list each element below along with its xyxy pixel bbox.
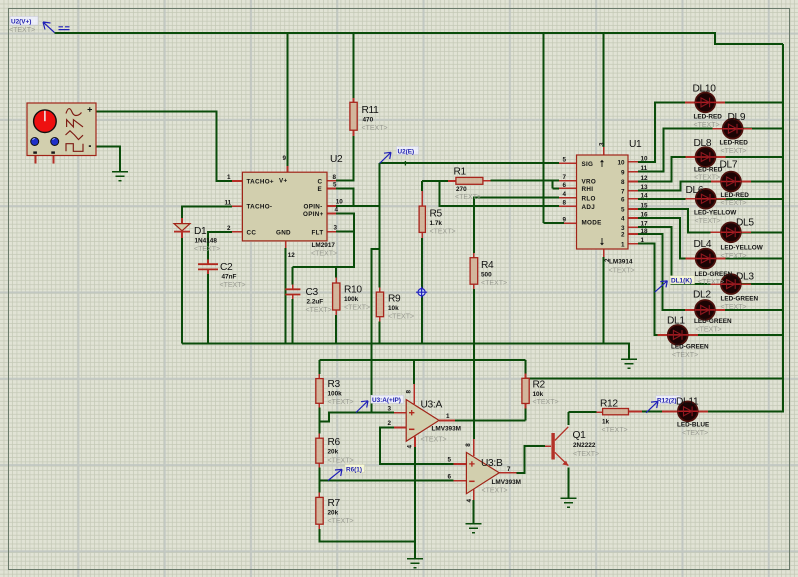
svg-text:7: 7 [621, 188, 625, 195]
wire U3A pin8 up to rail2 [413, 360, 415, 384]
pin stub U3A minus [394, 426, 406, 428]
lead R9 [379, 288, 381, 322]
svg-text:R12(2): R12(2) [657, 397, 677, 404]
wire branch to opamp plus input [372, 249, 380, 413]
svg-text:R7: R7 [328, 498, 341, 509]
probe label R6(1) [328, 465, 365, 481]
svg-text:LED-RED: LED-RED [720, 140, 749, 147]
wire OPIN- row [336, 205, 380, 207]
wire R10 top and bottom [335, 267, 337, 344]
chip U1 body [577, 155, 629, 249]
svg-text:<TEXT>: <TEXT> [430, 229, 456, 236]
svg-text:<TEXT>: <TEXT> [672, 352, 698, 359]
svg-text:10: 10 [641, 155, 649, 162]
resistor R2 [522, 378, 529, 403]
svg-text:TACHO-: TACHO- [247, 204, 273, 211]
wire R3 top [318, 360, 320, 374]
svg-text:DL1: DL1 [667, 316, 685, 327]
svg-text:<TEXT>: <TEXT> [682, 430, 708, 437]
wire U3A output row [455, 419, 526, 421]
lead DL7 [711, 181, 751, 183]
LED DL3 [721, 274, 742, 294]
svg-text:4: 4 [621, 216, 625, 223]
svg-text:5: 5 [621, 207, 625, 214]
svg-text:<TEXT>: <TEXT> [328, 399, 354, 406]
svg-text:R5: R5 [430, 209, 443, 220]
wire U1 pin17 to DL3 [638, 227, 783, 284]
capacitor C3 [285, 289, 300, 294]
svg-text:1k: 1k [602, 419, 610, 426]
svg-text:10: 10 [617, 160, 625, 167]
wire LED anode rail [782, 44, 784, 412]
lead DL8 [685, 156, 725, 158]
pin stub U1 RLO [559, 197, 577, 199]
lead DL5 [711, 231, 751, 233]
probe label U3:A(+IP) [356, 395, 404, 412]
svg-text:9: 9 [562, 217, 566, 224]
wire U1 V+ drop [603, 33, 605, 147]
svg-text:4: 4 [407, 445, 414, 449]
pin stub U1 RHI [559, 187, 577, 189]
node marker crosshair [416, 287, 427, 298]
pin stub U3A power8 [413, 384, 415, 404]
wire U1 pin12 to DL8 [638, 157, 783, 182]
svg-text:LM3914: LM3914 [609, 259, 633, 266]
svg-text:<TEXT>: <TEXT> [220, 282, 246, 289]
svg-text:2.2uF: 2.2uF [307, 299, 324, 306]
lead C2 [207, 260, 209, 275]
svg-text:U3:A(+IP): U3:A(+IP) [372, 397, 401, 404]
svg-text:<TEXT>: <TEXT> [573, 451, 599, 458]
svg-text:7: 7 [562, 174, 566, 181]
wire CC row [208, 232, 232, 260]
pin stub U3B power4 [473, 490, 475, 500]
svg-text:C: C [318, 178, 323, 185]
svg-text:<TEXT>: <TEXT> [306, 307, 332, 314]
generator component [27, 103, 96, 156]
svg-text:1: 1 [621, 241, 625, 248]
pin stub U3B out [499, 472, 516, 474]
LED DL4 [695, 249, 716, 269]
svg-text:4: 4 [562, 191, 566, 198]
lead C3 [292, 285, 294, 300]
wire R11 top drop [353, 33, 355, 98]
wire R6 bottom row to U3B minus [319, 468, 453, 481]
svg-text:U3:B: U3:B [481, 458, 503, 469]
pin stub U2 OPIN- [327, 205, 336, 207]
lead DL1 [658, 334, 698, 336]
svg-text:D1: D1 [194, 226, 207, 237]
pin stub U1 V+ top [603, 147, 605, 155]
svg-text:LM2917: LM2917 [312, 242, 336, 249]
wire R3 to R6 [318, 408, 320, 434]
svg-text:LED-GREEN: LED-GREEN [671, 344, 709, 351]
wire generator plus to TACHO+ [96, 111, 232, 181]
svg-text:17: 17 [641, 221, 649, 228]
svg-text:<TEXT>: <TEXT> [455, 194, 481, 201]
svg-text:<TEXT>: <TEXT> [698, 279, 724, 286]
svg-text:RHI: RHI [582, 186, 594, 193]
resistor R9 [376, 292, 383, 317]
lead R3 [318, 374, 320, 408]
lead D1 [181, 218, 183, 238]
wire OPIN+ down to FLT [336, 214, 354, 232]
lead R7 [318, 493, 320, 530]
svg-text:11: 11 [225, 199, 232, 206]
svg-text:1: 1 [641, 237, 645, 244]
svg-text:GND: GND [276, 229, 291, 236]
pin stub U3B power8 [473, 439, 475, 456]
wire U2 pin12 GND drop [285, 248, 287, 344]
ground gen [112, 172, 128, 181]
svg-text:2N2222: 2N2222 [573, 442, 596, 449]
lead R1 [448, 180, 490, 182]
svg-text:<TEXT>: <TEXT> [533, 399, 559, 406]
wire R5 bottom [421, 238, 423, 344]
pin stub U1 SIG [559, 162, 577, 164]
LED DL9 [722, 119, 743, 139]
pin stub U2 OPIN+ [327, 213, 336, 215]
wire RHI MODE drop [544, 33, 565, 223]
svg-text:R12: R12 [600, 399, 618, 410]
svg-text:4: 4 [466, 499, 473, 503]
wire U1 pin1 to DL1 [638, 244, 783, 335]
svg-text:LED-RED: LED-RED [721, 192, 750, 199]
svg-text:15: 15 [641, 202, 649, 209]
lead R11 [353, 98, 355, 136]
pin stub U1 V- bottom [603, 249, 605, 257]
wire R4 bottom to rail and down to U3B power [473, 289, 475, 439]
pin stub Q1 base [545, 445, 551, 447]
svg-text:TACHO+: TACHO+ [247, 178, 274, 185]
svg-text:5: 5 [562, 157, 566, 164]
svg-text:RLO: RLO [582, 196, 596, 203]
svg-text:U2(V+): U2(V+) [11, 19, 31, 26]
wire R3 R6 node zigzag to plus input [319, 413, 394, 422]
wire U1 pin13 to DL7 [638, 182, 783, 191]
svg-text:LED-RED: LED-RED [694, 167, 723, 174]
wire U1 pin14 to DL6 [638, 198, 783, 200]
pin stub U3B minus [454, 480, 467, 482]
svg-text:DL9: DL9 [728, 112, 746, 123]
wire U2 pin9 V+ drop [286, 33, 288, 166]
svg-text:LED-RED: LED-RED [694, 114, 723, 121]
svg-text:DL4: DL4 [694, 239, 712, 250]
svg-text:DL2: DL2 [693, 290, 711, 301]
opamp U3:A [406, 400, 439, 442]
wire Q1 collector up to R12 row [568, 412, 596, 425]
pin stubs U1 right outputs [628, 162, 638, 244]
svg-text:10k: 10k [388, 305, 399, 312]
resistor R7 [316, 497, 323, 524]
svg-text:3: 3 [387, 406, 391, 413]
svg-text:<TEXT>: <TEXT> [482, 488, 508, 495]
wire rail2 V+ lower [319, 359, 525, 361]
wire Q1 emitter down [567, 468, 569, 499]
svg-text:DL7: DL7 [720, 160, 738, 171]
wire ADJ row from R1 R5 node [440, 181, 559, 206]
svg-text:9: 9 [283, 155, 287, 162]
wire R12 to DL11 [642, 411, 662, 413]
lead DL10 [685, 101, 725, 103]
svg-text:<TEXT>: <TEXT> [721, 304, 747, 311]
pin stub U3B plus [454, 463, 467, 465]
svg-text:<TEXT>: <TEXT> [609, 268, 635, 275]
svg-text:DL10: DL10 [693, 84, 717, 95]
svg-text:1: 1 [227, 174, 231, 181]
pin stub U2 V+ pin9 [286, 166, 288, 172]
svg-text:LED-GREEN: LED-GREEN [694, 318, 732, 325]
svg-text:<TEXT>: <TEXT> [362, 125, 388, 132]
wire SIG row U2(E) [380, 162, 559, 164]
wire C3 bottom [292, 299, 294, 344]
lead DL9 [713, 128, 753, 130]
probe label U2(E) [380, 147, 419, 164]
wire U3B output to Q1 base [517, 446, 546, 473]
svg-text:1N4148: 1N4148 [195, 238, 218, 245]
svg-text:OPIN-: OPIN- [304, 204, 323, 211]
svg-text:LED-YELLOW: LED-YELLOW [694, 210, 737, 217]
svg-text:<TEXT>: <TEXT> [194, 246, 220, 253]
svg-text:14: 14 [641, 192, 649, 199]
svg-text:5: 5 [447, 457, 451, 464]
LED DL7 [721, 172, 742, 192]
LED DL10 [695, 93, 716, 113]
ground below U3B [466, 524, 482, 533]
wire U3A minus input route to U3B plus [380, 427, 454, 464]
pin stub U2 GND pin12 [285, 241, 287, 248]
svg-text:LMV393M: LMV393M [432, 426, 461, 433]
svg-text:<TEXT>: <TEXT> [694, 122, 720, 129]
lead DL2 [685, 309, 725, 311]
svg-text:R4: R4 [481, 260, 494, 271]
resistor R10 [333, 283, 340, 310]
diode D1 [174, 224, 190, 231]
U1 internal tiny arrows [601, 161, 604, 168]
svg-text:16: 16 [641, 211, 649, 218]
svg-text:SIG: SIG [582, 161, 594, 168]
wire RLO row to R4 [474, 198, 559, 253]
probe label DL1(K) [655, 276, 695, 292]
wire C2 bottom [207, 274, 209, 344]
svg-text:Q1: Q1 [573, 430, 587, 441]
opamp U3:B [466, 452, 499, 493]
svg-text:<TEXT>: <TEXT> [695, 218, 721, 225]
svg-text:5: 5 [333, 182, 337, 189]
junction tick SIG row [404, 161, 406, 166]
svg-text:6: 6 [621, 197, 625, 204]
svg-text:R6(1): R6(1) [346, 466, 362, 473]
svg-text:270: 270 [456, 186, 467, 193]
wire vertical to R9 top [379, 163, 381, 287]
svg-text:<TEXT>: <TEXT> [344, 305, 370, 312]
wire R5 R1 junction [422, 181, 448, 191]
svg-text:VRO: VRO [582, 179, 597, 186]
LED DL6 [695, 189, 716, 209]
wire FLT to C3 row [293, 232, 354, 285]
svg-text:U2(E): U2(E) [398, 148, 415, 155]
wire U1 pin16 to DL4 [638, 218, 783, 259]
svg-text:20k: 20k [328, 449, 339, 456]
svg-text:12: 12 [641, 175, 649, 182]
svg-text:<TEXT>: <TEXT> [721, 253, 747, 260]
svg-text:2: 2 [387, 420, 391, 427]
svg-text:3: 3 [599, 142, 606, 146]
svg-text:DL5: DL5 [736, 218, 754, 229]
svg-text:U3:A: U3:A [421, 400, 443, 411]
svg-text:R9: R9 [388, 294, 401, 305]
svg-text:<TEXT>: <TEXT> [721, 200, 747, 207]
svg-text:R6: R6 [328, 437, 341, 448]
pin stub U2 TACHO- [232, 205, 242, 207]
resistor R12 [603, 409, 629, 415]
wire R1 right to VRO [491, 180, 559, 182]
wire ground rail1 [182, 344, 629, 360]
wire R2 bottom to U3A out [525, 408, 527, 420]
wire E pin5 down to OPIN- row [336, 189, 353, 206]
wire R7 top [318, 481, 320, 493]
wire U1 pin11 to DL9 [638, 129, 783, 172]
LED DL11 [678, 401, 699, 421]
wire R7 bottom row [319, 529, 415, 541]
svg-text:ADJ: ADJ [582, 204, 596, 211]
wire generator minus to ground [96, 146, 120, 172]
ground rail1 right [621, 359, 637, 368]
svg-text:U2: U2 [330, 154, 343, 165]
pin stub U3A plus [394, 412, 406, 414]
wire DL11 right to rail corner [708, 411, 783, 414]
resistor R6 [316, 438, 323, 463]
svg-text:9: 9 [621, 169, 625, 176]
terminal U2(V+) top left [9, 17, 70, 35]
lead R4 [473, 253, 475, 289]
svg-text:2: 2 [604, 258, 611, 262]
svg-text:<TEXT>: <TEXT> [311, 251, 337, 258]
svg-text:8: 8 [465, 443, 472, 447]
svg-text:6: 6 [562, 182, 566, 189]
LED DL5 [721, 222, 742, 242]
svg-text:<TEXT>: <TEXT> [9, 27, 35, 34]
svg-text:20k: 20k [328, 510, 339, 517]
svg-text:DL11: DL11 [676, 397, 699, 408]
svg-text:U1: U1 [629, 139, 642, 150]
svg-text:<TEXT>: <TEXT> [388, 314, 414, 321]
svg-text:8: 8 [333, 174, 337, 181]
pin stub U1 VRO [559, 180, 577, 182]
svg-text:<TEXT>: <TEXT> [328, 518, 354, 525]
svg-text:7: 7 [507, 466, 511, 473]
svg-text:OPIN+: OPIN+ [303, 211, 324, 218]
lead DL6 [686, 198, 726, 200]
pin stub U1 ADJ [559, 205, 577, 207]
LED DL2 [695, 300, 716, 320]
lead R2 [525, 374, 527, 409]
svg-text:LED-GREEN: LED-GREEN [695, 271, 733, 278]
svg-text:LMV393M: LMV393M [492, 479, 521, 486]
lead R10 [335, 278, 337, 316]
svg-text:470: 470 [363, 117, 374, 124]
svg-text:<TEXT>: <TEXT> [481, 280, 507, 287]
svg-text:<TEXT>: <TEXT> [694, 175, 720, 182]
resistor R1 [456, 177, 483, 184]
svg-text:LED-YELLOW: LED-YELLOW [721, 245, 764, 252]
transistor Q1 [551, 427, 568, 466]
svg-text:DL3: DL3 [736, 272, 754, 283]
resistor R11 [350, 102, 357, 130]
svg-text:V+: V+ [279, 178, 287, 185]
svg-text:DL8: DL8 [694, 138, 712, 149]
pin stub U2 C pin8 [327, 180, 336, 182]
svg-text:2: 2 [621, 232, 625, 239]
svg-text:11: 11 [641, 165, 648, 172]
svg-text:47nF: 47nF [222, 274, 237, 281]
svg-text:FLT: FLT [312, 229, 324, 236]
wire U1 pin18 to DL2 [638, 234, 783, 310]
resistor R5 [419, 206, 425, 232]
LED DL1 [667, 325, 688, 345]
svg-text:<TEXT>: <TEXT> [328, 458, 354, 465]
svg-text:12: 12 [288, 252, 296, 259]
wire R2 from rail2 [525, 360, 527, 373]
svg-text:LED-BLUE: LED-BLUE [677, 422, 710, 429]
svg-text:<TEXT>: <TEXT> [696, 327, 722, 334]
svg-text:10k: 10k [533, 391, 544, 398]
svg-text:8: 8 [406, 390, 413, 394]
pin stub U1 MODE [564, 222, 577, 224]
svg-text:R11: R11 [362, 105, 380, 116]
wire U3A pin4 down [414, 447, 416, 559]
ground Q1 emitter [560, 498, 576, 507]
lead R5 [421, 191, 423, 238]
svg-text:R3: R3 [328, 379, 341, 390]
lead DL4 [685, 258, 725, 260]
generator pins [36, 156, 54, 164]
svg-text:100k: 100k [344, 296, 359, 303]
pin stub U3A power4 [414, 437, 416, 447]
svg-text:R1: R1 [454, 167, 467, 178]
wire R9 bottom [379, 322, 381, 344]
pin stub U2 FLT [327, 231, 336, 233]
svg-text:100k: 100k [328, 391, 343, 398]
capacitor C2 [198, 264, 218, 269]
svg-text:E: E [318, 186, 323, 193]
pin stub U2 TACHO+ [232, 180, 242, 182]
svg-text:500: 500 [481, 272, 492, 279]
svg-text:MODE: MODE [582, 219, 602, 226]
ground below R7 U3A [407, 559, 423, 568]
svg-text:DL6: DL6 [686, 185, 704, 196]
svg-text:4: 4 [335, 207, 339, 214]
svg-text:18: 18 [641, 228, 649, 235]
wire D1 bottom to rail [181, 238, 183, 344]
svg-text:C3: C3 [306, 287, 319, 298]
chip U2 body [242, 172, 327, 241]
svg-text:1.7k: 1.7k [430, 220, 443, 227]
svg-text:R10: R10 [344, 285, 362, 296]
wire C pin8 to R11 [336, 136, 354, 181]
lead R12 [596, 411, 642, 414]
svg-text:C2: C2 [220, 262, 233, 273]
resistor R4 [470, 258, 478, 285]
lead DL3 [711, 283, 751, 285]
wire TACHO- row and D1 top [182, 206, 232, 218]
lead DL11 [662, 411, 708, 413]
svg-text:DL1(K): DL1(K) [671, 278, 692, 285]
pin stub U2 CC [232, 231, 242, 233]
svg-text:10: 10 [336, 199, 344, 206]
svg-text:<TEXT>: <TEXT> [421, 437, 447, 444]
lead R6 [318, 434, 320, 468]
